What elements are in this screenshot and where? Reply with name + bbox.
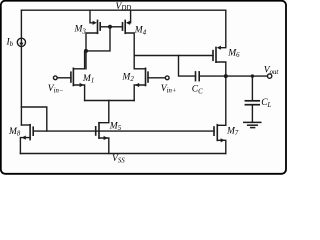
arrow M8 source (points left) xyxy=(22,136,26,140)
arrow M3 source (PMOS, points right into channel) xyxy=(93,21,97,25)
wire M8 drain lead xyxy=(21,124,30,126)
input terminal Vin- xyxy=(53,76,57,80)
arrow of current source Ib xyxy=(19,43,23,47)
arrow M2 source (NMOS, points left away) xyxy=(135,83,139,87)
junction dot mirror gate node xyxy=(108,25,112,29)
transistor M5 xyxy=(98,123,100,138)
wire bias line M8-M5-M7 gates xyxy=(33,130,214,132)
wire M3 diode connection xyxy=(86,27,110,51)
junction dot CL tap xyxy=(251,74,254,77)
wire M6 gate line xyxy=(134,55,213,57)
output terminal Vout xyxy=(267,74,271,78)
wire Ib to M8 drain xyxy=(20,46,22,125)
junction dot output node xyxy=(224,74,228,78)
transistor M3 xyxy=(97,20,99,33)
arrow M6 source (PMOS, points left into channel) xyxy=(217,46,221,50)
arrow M5 source xyxy=(104,136,108,140)
wire tail node xyxy=(85,100,135,102)
junction dot M3 drain node xyxy=(84,49,88,53)
border frame xyxy=(1,1,286,174)
ground xyxy=(244,121,261,123)
capacitor CL xyxy=(245,100,259,102)
wire VSS rail xyxy=(20,153,225,155)
transistor M2 xyxy=(145,68,147,85)
arrow M1 source (NMOS, points right away) xyxy=(80,83,84,87)
transistor M1 xyxy=(72,68,74,85)
wire Ib top drop xyxy=(20,10,22,38)
transistor M7 xyxy=(216,125,218,141)
wire Cc branch xyxy=(179,56,196,77)
wire M3 gate lead xyxy=(100,26,110,28)
wire M8 diode link xyxy=(21,107,46,131)
input terminal Vin+ xyxy=(165,76,169,80)
transistor M8 xyxy=(29,125,31,140)
wire mirror gate link xyxy=(110,26,123,28)
wire output line xyxy=(226,75,268,77)
capacitor Cc xyxy=(195,72,197,81)
transistor M6 xyxy=(215,47,217,62)
current source Ib xyxy=(17,38,25,46)
arrow M7 source xyxy=(221,138,225,142)
arrow M4 source (PMOS, points left into channel) xyxy=(126,21,130,25)
wire VDD rail xyxy=(21,9,225,11)
wire Cc to output node xyxy=(199,75,226,77)
wire CL branch xyxy=(251,76,253,100)
transistor M4 xyxy=(124,20,126,33)
